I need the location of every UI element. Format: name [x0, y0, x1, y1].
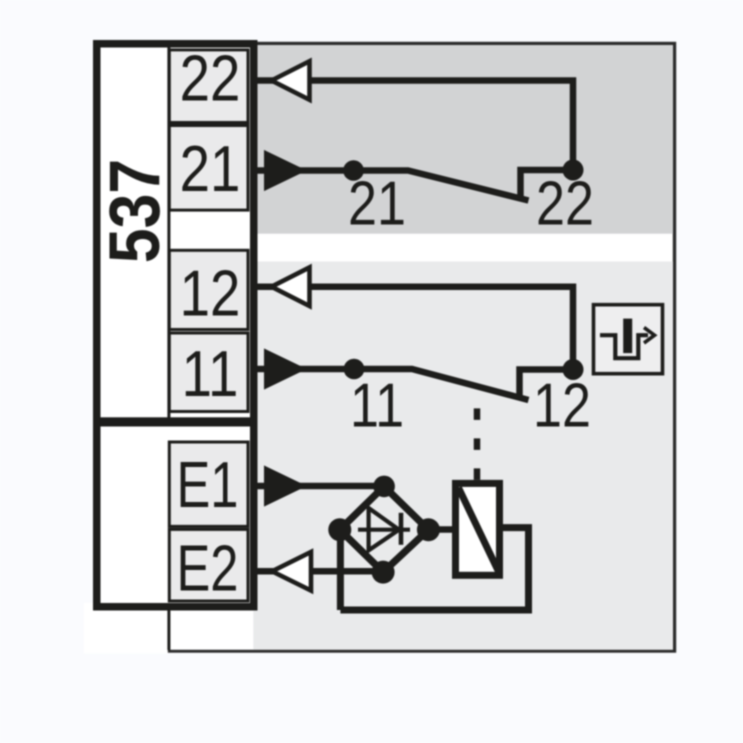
svg-text:22: 22	[536, 169, 594, 238]
terminal 22 box	[169, 50, 248, 123]
terminal strip left border (lower run)	[167, 441, 170, 650]
icon box: plug-in output symbol	[594, 305, 663, 374]
relay coil K1	[456, 483, 500, 575]
rectifier node top	[373, 476, 395, 498]
svg-text:12: 12	[180, 257, 241, 330]
terminal 21 box	[169, 126, 248, 211]
figure frame	[99, 44, 675, 652]
diode cathode bar	[399, 513, 404, 545]
NC contact 11-12 moving blade	[354, 369, 529, 400]
svg-text:E2: E2	[176, 533, 238, 605]
svg-text:11: 11	[350, 371, 404, 440]
arrow in terminal 21 (filled triangle)	[265, 152, 304, 190]
rectifier node left	[328, 518, 351, 541]
terminal 12 box	[169, 250, 248, 329]
icon glyph: cup	[600, 335, 648, 358]
svg-text:11: 11	[182, 338, 239, 411]
terminal E1 box	[169, 442, 248, 526]
terminal strip left border (upper run)	[167, 47, 170, 418]
node 12 junction dot	[563, 359, 584, 380]
node 21 junction dot	[343, 160, 364, 181]
wire terminal 11	[258, 366, 355, 373]
diode triangle	[369, 508, 399, 550]
NC contact 21-22 moving blade	[354, 171, 529, 201]
relay module box 537	[97, 44, 254, 607]
svg-text:22: 22	[180, 42, 241, 115]
arrow in terminal 11 (filled triangle)	[265, 350, 304, 388]
mechanical link (dashed)	[474, 408, 481, 480]
wire rectifier right node to coil	[428, 526, 455, 533]
arrow out terminal E2 (open triangle)	[272, 552, 311, 591]
rectifier node right	[417, 518, 440, 541]
white canvas strip bottom-left of figure	[84, 603, 168, 654]
wire terminal E1 to rectifier	[258, 483, 385, 490]
wire terminal 21	[258, 167, 354, 174]
rectifier node bottom	[372, 561, 395, 584]
terminal E2 box	[169, 529, 248, 601]
bridge rectifier V1 diamond	[340, 486, 429, 572]
wire terminal 12 to contact	[258, 287, 574, 362]
terminal strip extension below module box	[170, 606, 253, 650]
wire terminal E2 to rectifier	[258, 568, 384, 575]
svg-text:21: 21	[180, 133, 241, 206]
svg-text:12: 12	[533, 371, 591, 440]
NC contact 21-22 fixed hook	[521, 170, 574, 200]
diode lead	[358, 528, 410, 532]
wire terminal 22 to contact	[258, 81, 574, 164]
terminal 11 box	[169, 333, 248, 412]
arrow out terminal 12 (open triangle)	[272, 267, 310, 306]
wire coil return loop	[340, 528, 528, 610]
NC contact 11-12 fixed hook	[520, 370, 574, 399]
node 22 junction dot	[563, 160, 584, 181]
shaded zone: contact/coil area (light gray panel)	[101, 262, 674, 650]
icon glyph: bar	[623, 319, 632, 354]
node 11 junction dot	[344, 359, 365, 380]
module internal divider	[101, 417, 251, 426]
arrow out terminal 22 (open triangle)	[272, 61, 310, 100]
icon glyph: arrow head	[644, 328, 655, 344]
relay coil diagonal	[459, 488, 500, 573]
svg-text:537: 537	[95, 159, 175, 263]
arrow in terminal E1 (filled triangle)	[265, 467, 304, 505]
svg-text:E1: E1	[176, 449, 238, 521]
svg-text:21: 21	[348, 169, 406, 238]
shaded zone: relay contact area 21-22 (dark gray panel)	[101, 45, 674, 234]
wire rectifier left node down to loop	[337, 530, 344, 610]
